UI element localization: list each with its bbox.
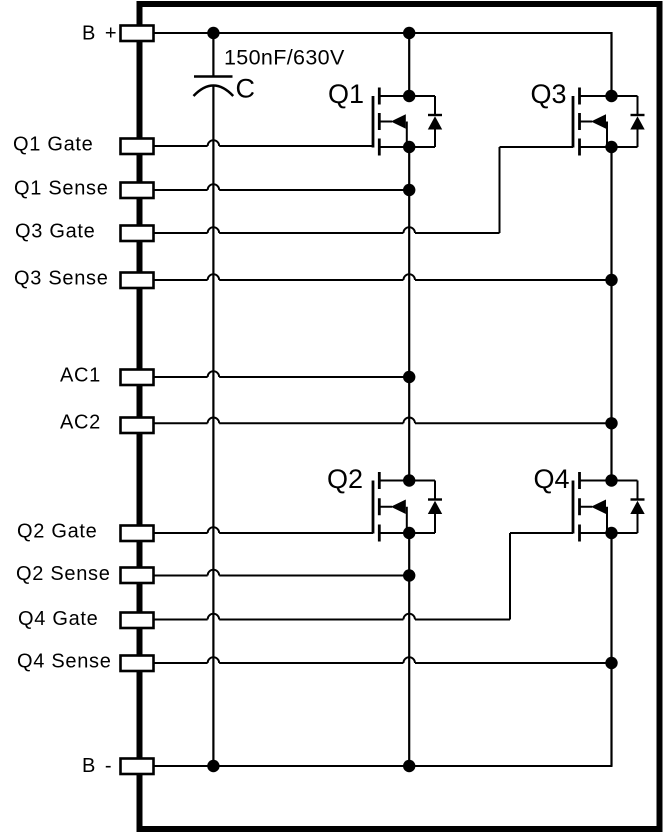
junction Q1 source <box>403 141 415 153</box>
diode D2 (body diode of Q2) <box>428 481 442 534</box>
right bus center segment <box>610 147 612 481</box>
hop Q3 Gate over middle bus <box>403 227 415 233</box>
wire Q3 Sense <box>154 279 208 281</box>
terminal pad Q1 Sense <box>121 183 154 199</box>
terminal pad Q2 Sense <box>121 568 154 584</box>
hop AC1 over cap bus <box>208 371 220 377</box>
terminal pad B- <box>121 759 154 775</box>
module outline frame <box>140 4 660 829</box>
svg-text:Q3 Sense: Q3 Sense <box>14 268 109 290</box>
diode D1 (body diode of Q1) <box>428 96 442 147</box>
terminal pad Q1 Gate <box>121 139 154 155</box>
junction B+/middle bus <box>403 27 415 39</box>
junction Q2 drain <box>403 474 415 486</box>
svg-text:Q2: Q2 <box>327 464 363 494</box>
terminal pad AC1 <box>121 370 154 386</box>
hop Q1 Sense over cap bus <box>208 184 220 190</box>
transistor Q2 <box>373 472 435 542</box>
svg-text:Q3: Q3 <box>531 79 567 109</box>
junction Q3 source <box>605 141 617 153</box>
diode D3 (body diode of Q3) <box>630 96 644 147</box>
hop AC2 over middle bus <box>403 418 415 424</box>
hop Q3 Sense over cap bus <box>208 274 220 280</box>
right bus lower segment <box>610 533 612 766</box>
transistor Q1 <box>373 88 435 156</box>
wire B+ right drop to Q3 drain <box>610 32 612 96</box>
svg-text:B +: B + <box>82 23 119 45</box>
svg-text:Q4 Sense: Q4 Sense <box>17 651 112 673</box>
junction B-/cap bus <box>207 760 219 772</box>
svg-text:C: C <box>236 74 256 104</box>
capacitor C1 curved plate <box>194 86 234 97</box>
svg-text:B -: B - <box>82 755 114 777</box>
junction Q1 Sense tap <box>403 184 415 196</box>
terminal pad Q3 Sense <box>121 273 154 289</box>
wire Q2 Sense <box>154 575 208 577</box>
hop Q4 Sense over cap bus <box>208 657 220 663</box>
terminal pad Q4 Sense <box>121 656 154 672</box>
terminal pad B+ <box>121 26 154 42</box>
svg-text:150nF/630V: 150nF/630V <box>224 46 345 70</box>
hop Q4 Gate over middle bus <box>403 614 415 620</box>
diode D4 (body diode of Q4) <box>630 481 644 534</box>
capacitor bus lower lead <box>212 86 214 766</box>
svg-text:Q1 Gate: Q1 Gate <box>13 134 94 156</box>
svg-text:AC2: AC2 <box>60 412 101 434</box>
hop Q4 Gate over cap bus <box>208 614 220 620</box>
hop Q3 Sense over middle bus <box>403 274 415 280</box>
wire Q4 Sense <box>154 662 208 664</box>
wire B- horizontal <box>154 765 612 767</box>
junction B-/middle bus <box>403 760 415 772</box>
svg-text:Q2 Sense: Q2 Sense <box>16 563 111 585</box>
wire B+ horizontal <box>154 32 612 34</box>
wire B- right rise <box>611 766 613 767</box>
svg-text:Q1 Sense: Q1 Sense <box>14 178 109 200</box>
wire Q2 Gate <box>154 532 208 534</box>
junction Q4 drain <box>605 474 617 486</box>
wire AC1 <box>154 376 208 378</box>
svg-text:AC1: AC1 <box>60 365 101 387</box>
junction Q1 drain <box>403 90 415 102</box>
middle bus upper segment <box>408 33 410 96</box>
wire Q1 Gate <box>154 145 208 147</box>
junction Q4 source <box>605 527 617 539</box>
junction AC1 tap <box>403 371 415 383</box>
wire Q1 Sense <box>154 189 208 191</box>
wire Q3 Gate <box>154 232 208 234</box>
terminal pad Q2 Gate <box>121 526 154 542</box>
svg-text:Q4 Gate: Q4 Gate <box>18 608 99 630</box>
terminal pad Q3 Gate <box>121 226 154 242</box>
junction Q2 Sense tap <box>403 569 415 581</box>
hop AC2 over cap bus <box>208 418 220 424</box>
transistor Q3 <box>573 88 638 156</box>
junction Q2 source <box>403 527 415 539</box>
capacitor C1 flat plate <box>194 75 233 78</box>
transistor Q4 <box>573 472 638 542</box>
hop Q1 Gate over cap bus <box>208 140 220 146</box>
terminal pad AC2 <box>121 418 154 434</box>
junction Q4 Sense tap <box>605 657 617 669</box>
hop Q3 Gate over cap bus <box>208 227 220 233</box>
hop Q4 Sense over middle bus <box>403 657 415 663</box>
middle bus center segment <box>408 147 410 481</box>
capacitor bus upper lead <box>212 33 214 76</box>
junction Q3 Sense tap <box>605 274 617 286</box>
junction Q3 drain <box>605 90 617 102</box>
junction B+/cap bus <box>207 27 219 39</box>
svg-text:Q2 Gate: Q2 Gate <box>17 521 98 543</box>
svg-text:Q3 Gate: Q3 Gate <box>15 221 96 243</box>
hop Q2 Gate over cap bus <box>208 527 220 533</box>
hop Q2 Sense over cap bus <box>208 570 220 576</box>
terminal pad Q4 Gate <box>121 613 154 629</box>
wire AC2 <box>154 422 208 424</box>
svg-text:Q1: Q1 <box>328 79 364 109</box>
svg-text:Q4: Q4 <box>534 464 570 494</box>
middle bus lower segment <box>408 533 410 766</box>
junction AC2 tap <box>605 417 617 429</box>
wire Q4 Gate <box>154 619 208 621</box>
